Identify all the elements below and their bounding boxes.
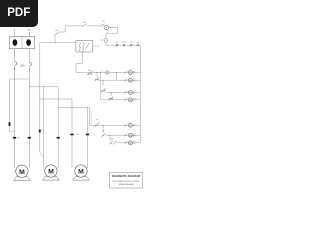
switch S6 label — [102, 20, 105, 23]
svg-text:LB 2M: LB 2M — [93, 46, 99, 48]
svg-text:M: M — [129, 98, 131, 102]
coil M2 — [128, 78, 132, 82]
wire bell run 1 — [59, 26, 82, 32]
wire H1 — [10, 78, 30, 80]
contact K7 label — [111, 138, 114, 141]
switch row wire — [106, 44, 140, 46]
overload label b — [42, 129, 44, 132]
wire diagonal to motor2 left — [40, 152, 44, 157]
wire drop rung1 to pushbutton PB2 — [96, 72, 98, 77]
rung 5 wire — [90, 124, 140, 126]
timer T circle — [106, 71, 109, 74]
wire drop rung2 to pushbutton PB3 — [102, 80, 104, 86]
switch S3 label — [130, 41, 133, 44]
coil M6 — [128, 133, 132, 137]
bell B1 clapper — [105, 26, 107, 28]
contact K5a blade rung5 — [124, 124, 127, 127]
switch S4 label — [137, 41, 140, 44]
contact K7a blade rung7 — [124, 141, 127, 144]
contact K7 arrow ticks — [110, 142, 112, 143]
overload OL1a dash — [13, 137, 16, 139]
svg-text:N: N — [28, 28, 30, 32]
overload OL3a dash — [70, 134, 73, 136]
wire transformer secondary down — [82, 52, 84, 63]
wire L supply stub — [14, 32, 16, 37]
coil M1 — [128, 70, 132, 74]
svg-text:M: M — [129, 71, 131, 75]
wire N down from meter — [28, 49, 30, 62]
motor M3 base — [73, 176, 89, 180]
svg-text:M: M — [129, 78, 131, 82]
contact K6 arrow ticks — [102, 135, 104, 136]
contact K7b blade — [113, 141, 117, 145]
svg-text:M: M — [129, 141, 131, 145]
switch S1 label — [116, 41, 119, 44]
rung 6 wire — [106, 134, 140, 136]
contact K4 blade rung4 — [124, 98, 127, 101]
coil M2 labels — [133, 78, 135, 81]
contact K2 blade rung2 — [124, 79, 127, 82]
junction dots — [13, 78, 16, 81]
overload OL2 dash — [57, 137, 60, 139]
wire H3 — [40, 98, 72, 100]
wire N down to motor section — [28, 66, 30, 168]
meter box (kWh meter, two elements) — [10, 37, 35, 49]
title block box — [109, 172, 142, 188]
contact K1a blade rung1 — [124, 71, 127, 74]
svg-text:M: M — [129, 133, 131, 137]
breaker CB2 arc — [29, 62, 31, 65]
wire right rail — [139, 45, 141, 143]
page background — [0, 0, 149, 198]
breaker terminal dot 2 — [29, 69, 30, 70]
overload OL1b dash — [28, 137, 31, 139]
wire bell loop — [107, 27, 117, 33]
rung 4 wire — [100, 99, 139, 101]
breaker CB1 arc — [15, 62, 17, 65]
switch S5 label — [83, 21, 86, 24]
transformer T1 arrow — [86, 43, 89, 49]
overload label c — [77, 133, 79, 136]
meter box divider — [21, 37, 23, 49]
contact K6 blade — [101, 133, 105, 137]
svg-text:WIRING DIAGRAM: WIRING DIAGRAM — [119, 183, 134, 186]
svg-text:20A: 20A — [20, 64, 25, 67]
pushbutton PB2 terminals — [95, 79, 96, 80]
coil M1 labels — [133, 70, 135, 73]
contact K5 blade — [95, 123, 100, 127]
pushbutton PB1 label — [88, 69, 91, 72]
wire bell branch riser — [54, 35, 56, 42]
breaker terminal dot 1 — [14, 68, 15, 69]
contact K7 blade — [109, 141, 113, 145]
wire lower ladder feed b — [90, 112, 92, 125]
wire corner to ladder feed — [76, 63, 83, 72]
switch S2 — [123, 44, 125, 46]
wire motor2 right vertical — [57, 87, 59, 168]
motor M1 base — [14, 177, 30, 181]
wire drop rung6 to rung7 — [109, 135, 111, 140]
motor M2 circle — [45, 165, 57, 177]
wire N supply stub — [28, 32, 30, 37]
wire motor2 left vertical — [43, 87, 45, 168]
switch S4 — [137, 44, 139, 46]
fuse F1 label — [101, 39, 104, 42]
svg-text:M: M — [129, 123, 131, 127]
pushbutton PB2 blade — [95, 77, 100, 81]
wire left rail upper ladder — [99, 72, 101, 99]
svg-text:TWO SPEED MOTOR CONTROL: TWO SPEED MOTOR CONTROL — [112, 181, 139, 183]
switch S0 blade — [54, 32, 59, 35]
wire fuse to switch row — [105, 42, 107, 45]
contact K5 label — [96, 118, 99, 121]
coil M7 — [128, 141, 132, 145]
wire H4 — [58, 107, 89, 109]
wire meter output horizontal — [40, 42, 76, 44]
wire H2 — [29, 86, 58, 88]
pushbutton PB4 terminals — [109, 98, 110, 99]
motor M2 base — [43, 176, 59, 180]
contact K6a blade rung6 — [124, 134, 127, 137]
rung 7 wire — [117, 142, 140, 144]
switch S6 blade — [101, 24, 105, 27]
motor M3 circle — [75, 165, 87, 177]
wire lower ladder feed a — [89, 108, 91, 125]
contact K5 arrow ticks — [96, 124, 98, 125]
coil M7 labels — [133, 140, 135, 143]
switch S2 label — [123, 41, 126, 44]
svg-text:SCHEMATIC DIAGRAM: SCHEMATIC DIAGRAM — [112, 174, 140, 178]
junction rung1 — [115, 71, 118, 74]
contact K0 dash — [9, 122, 11, 126]
meter element 1 — [13, 39, 18, 46]
svg-text:M: M — [78, 169, 84, 176]
switch S0 label — [55, 29, 58, 32]
wire motor3 right vertical — [87, 108, 89, 168]
coil M6 labels — [133, 133, 135, 136]
motor M1 circle — [16, 165, 28, 177]
switch S1 — [116, 44, 118, 46]
rung 1 wire — [76, 71, 140, 73]
transformer T1 primary coil — [79, 42, 80, 51]
svg-text:M: M — [48, 169, 54, 176]
overload OL3b dash — [86, 134, 89, 136]
contact K1 arrow — [100, 71, 103, 74]
contact K3 blade rung3 — [124, 91, 127, 94]
overload label a — [17, 136, 19, 139]
wire bell run 2 — [87, 25, 101, 27]
contact K2a dash — [39, 130, 41, 133]
coil M4 — [128, 98, 132, 102]
wire control drop vertical — [39, 43, 41, 153]
wire PB2 to rung2 — [99, 79, 117, 81]
coil M4 labels — [133, 97, 135, 100]
coil M3 labels — [133, 90, 135, 93]
contact K6 label — [102, 130, 105, 133]
wire left aux vertical — [9, 79, 11, 131]
wire L down from meter — [14, 49, 16, 62]
coil M3 — [128, 90, 132, 94]
transformer T1 box — [76, 41, 93, 53]
pushbutton PB4 blade — [109, 97, 114, 101]
wire L down to motor section — [14, 66, 16, 168]
switch S3 — [130, 44, 132, 46]
transformer T1 secondary coil — [83, 42, 84, 51]
wire drop rung5 to rung6 — [102, 125, 104, 133]
wire bell loop to fuse — [105, 34, 107, 39]
rung 2 wire — [116, 79, 139, 81]
wire motor3 left vertical — [71, 99, 73, 168]
wire jog to L line — [10, 130, 15, 132]
pushbutton PB3 blade — [101, 88, 106, 92]
switch S5 blade — [82, 24, 86, 27]
PDF badge — [0, 0, 38, 27]
meter element 2 — [26, 39, 31, 46]
coil M5 labels — [133, 123, 135, 126]
rung 3 wire — [106, 91, 140, 93]
pushbutton PB3 terminals — [102, 90, 103, 91]
PDF badge text — [0, 0, 38, 27]
timer T mark — [107, 71, 108, 73]
pushbutton PB1 terminals — [88, 73, 89, 74]
wire drop rung1 to rung2 — [115, 72, 117, 80]
wire drop rung3 to pushbutton PB4 — [110, 92, 112, 96]
svg-text:M: M — [19, 169, 25, 176]
coil M5 — [128, 123, 132, 127]
pushbutton PB1 blade — [87, 71, 92, 75]
fuse F1 — [105, 39, 108, 42]
bell B1 — [104, 25, 109, 30]
svg-text:M: M — [129, 91, 131, 95]
junction bell out — [109, 26, 112, 29]
